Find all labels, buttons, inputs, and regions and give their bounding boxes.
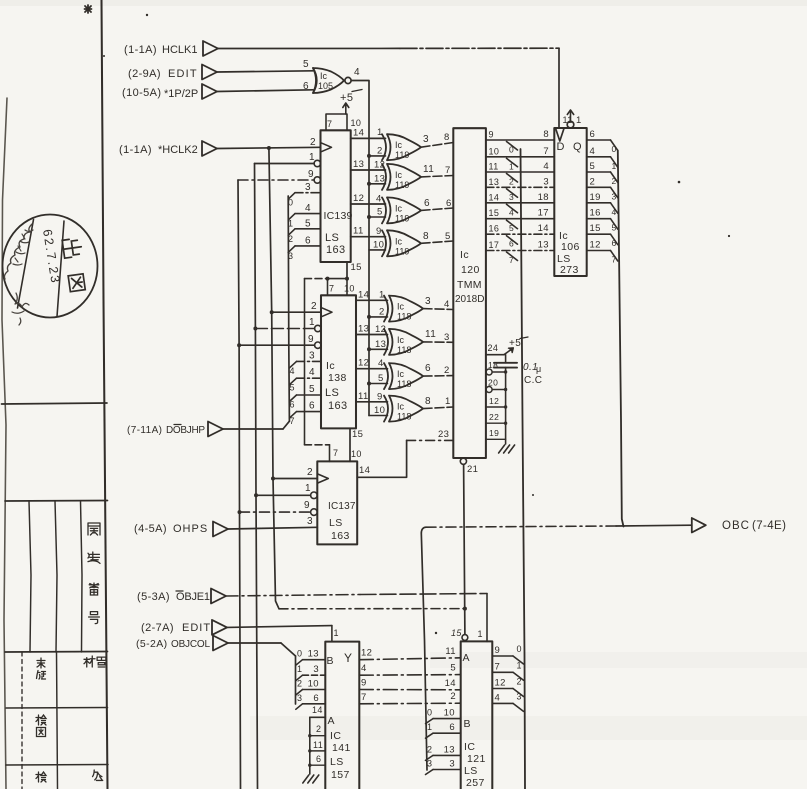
svg-text:3: 3: [297, 693, 302, 703]
svg-text:4: 4: [444, 299, 450, 310]
IC139 pin1 bubble: [314, 160, 320, 166]
svg-text:15: 15: [351, 262, 362, 273]
xor IC119 d: [382, 230, 386, 256]
svg-text:10: 10: [444, 708, 455, 719]
IC138 pin15 RCO to IC137 pin10: [349, 428, 351, 461]
IC139 pin2 clock wedge: [321, 143, 332, 152]
svg-text:1: 1: [305, 483, 311, 494]
svg-text:7: 7: [329, 284, 334, 294]
svg-text:1: 1: [297, 664, 302, 674]
svg-text:Ic: Ic: [395, 170, 403, 180]
wire IC105 pin4 flip line (vertical feed to XOR gates): [351, 81, 369, 416]
ground IC141 A bus: [303, 775, 309, 783]
svg-text:106: 106: [561, 241, 580, 253]
svg-text:12: 12: [489, 396, 499, 406]
svg-text:17: 17: [489, 240, 500, 250]
wire 1P/2P to IC105 pin6: [217, 90, 313, 92]
wire EDIT to IC105 pin5: [217, 71, 313, 72]
svg-text:B: B: [327, 655, 334, 667]
table kanji 未認: [37, 658, 45, 668]
svg-text:120: 120: [461, 264, 480, 276]
IC141 B input bus entries: [295, 656, 297, 704]
IC121 pin15 bubble: [462, 635, 468, 641]
input line DOBJHP: [208, 422, 223, 437]
IC137 pin2 clock wedge: [273, 478, 317, 480]
input buffer OBJE1: [211, 589, 226, 604]
counter IC137 LS163 body: [317, 461, 357, 544]
junction pin1 chain at IC137: [254, 493, 258, 497]
wire OBC riser / IC121 B bus: [421, 533, 427, 770]
svg-text:118: 118: [397, 312, 411, 322]
svg-text:1: 1: [445, 396, 451, 407]
svg-text:13: 13: [538, 240, 549, 251]
svg-text:9: 9: [377, 391, 383, 402]
svg-text:163: 163: [331, 530, 350, 542]
svg-text:6: 6: [290, 400, 295, 410]
svg-text:(1-1A): (1-1A): [124, 44, 157, 56]
svg-text:0: 0: [297, 649, 302, 659]
svg-text:118: 118: [397, 412, 411, 422]
or-gate IC105 pins 5,6 -> 4: [313, 68, 317, 93]
svg-text:0: 0: [427, 708, 432, 718]
scan specks: [146, 14, 148, 16]
svg-text:163: 163: [328, 400, 348, 412]
svg-text:(5-3A): (5-3A): [137, 591, 170, 603]
svg-text:10: 10: [373, 239, 384, 250]
svg-text:11: 11: [445, 646, 456, 657]
svg-text:14: 14: [312, 705, 323, 715]
svg-text:5: 5: [305, 218, 311, 229]
wire ENT column (IC139 pin9 chain): [238, 180, 241, 789]
svg-text:11: 11: [313, 740, 323, 750]
svg-text:7: 7: [290, 416, 295, 426]
svg-text:9: 9: [489, 130, 494, 140]
svg-text:16: 16: [590, 208, 601, 219]
counter IC138 LS163 body: [321, 295, 356, 428]
svg-text:4: 4: [376, 193, 382, 204]
svg-text:1: 1: [309, 152, 315, 163]
IC138 outputs 14,13,12,11 to IC118 XORs: [356, 299, 388, 301]
svg-text:12: 12: [375, 324, 386, 335]
svg-text:2: 2: [307, 467, 313, 478]
data bus vertical (RAM I/O bus): [521, 149, 526, 789]
svg-text:5: 5: [377, 207, 383, 218]
svg-text:4: 4: [590, 146, 596, 157]
bus data entries D0-D3 into IC139 pins 3,4,5,6: [288, 193, 295, 200]
svg-text:HCLK1: HCLK1: [162, 44, 197, 56]
svg-text:5: 5: [445, 231, 451, 242]
svg-text:2: 2: [310, 137, 316, 148]
IC139 pin9 bubble: [314, 177, 320, 183]
IC137 pin9 bubble: [311, 509, 318, 516]
svg-text:9: 9: [361, 678, 367, 689]
svg-text:6: 6: [449, 722, 455, 733]
wire RCO tie to IC138 pins 7,10: [328, 278, 348, 280]
IC120 pin21 bubble chip-select: [460, 458, 466, 464]
svg-text:11: 11: [423, 164, 434, 175]
IC137 pin1 bubble: [311, 492, 318, 499]
table kanji 関連番号 (vertical column): [88, 523, 100, 535]
junction at IC121 pin15 line: [463, 607, 467, 611]
svg-text:6: 6: [446, 198, 452, 209]
svg-text:LS: LS: [325, 387, 339, 399]
svg-text:5: 5: [309, 384, 315, 395]
svg-text:A: A: [463, 652, 470, 664]
junction pin9 chain at IC138: [237, 343, 241, 347]
svg-text:10: 10: [308, 679, 319, 690]
svg-text:7: 7: [543, 146, 549, 157]
wire ENP column (IC139 pin1 chain): [255, 164, 258, 789]
svg-text:14: 14: [359, 465, 370, 476]
xor IC118 c: [384, 363, 388, 389]
svg-text:119: 119: [395, 150, 409, 160]
wire OBC horizontal: [421, 527, 426, 533]
IC139 pin15 RCO: [346, 262, 348, 279]
svg-text:OBJCOL: OBJCOL: [171, 639, 210, 650]
bus data entries D4-D7 into IC138 pins 3,4,5,6: [289, 361, 296, 368]
IC120 pin18 bubble: [486, 369, 492, 375]
svg-text:1: 1: [309, 317, 315, 328]
svg-text:Ic: Ic: [397, 335, 405, 345]
svg-text:157: 157: [331, 769, 350, 781]
table kanji 材質: [84, 656, 95, 667]
svg-text:(5-2A): (5-2A): [136, 638, 168, 650]
svg-text:1: 1: [576, 115, 582, 126]
IC120 pin19: [486, 438, 506, 440]
svg-text:6: 6: [509, 239, 514, 249]
junction clock column at IC138 pin2: [270, 310, 274, 314]
svg-text:B: B: [464, 718, 471, 730]
svg-text:118: 118: [397, 345, 411, 355]
svg-text:3: 3: [425, 296, 431, 307]
wire HCLK2 vertical column to IC138/IC137 clocks: [269, 148, 279, 609]
svg-text:273: 273: [560, 264, 579, 276]
input buffer HCLK1: [203, 41, 218, 56]
svg-text:15: 15: [489, 208, 500, 218]
capacitor 0.1u ceramic: [505, 355, 507, 363]
svg-text:10: 10: [351, 449, 362, 459]
svg-text:15: 15: [352, 429, 363, 440]
svg-text:4: 4: [612, 207, 617, 217]
ram IC120 TMM2018D body: [453, 128, 486, 458]
svg-text:2: 2: [509, 177, 514, 187]
svg-text:Ic: Ic: [326, 360, 335, 372]
svg-text:Ic: Ic: [395, 140, 403, 150]
svg-text:6: 6: [425, 363, 431, 374]
wire DOBJHP to bus entry: [223, 428, 283, 430]
svg-text:14: 14: [358, 289, 369, 300]
register IC106 LS273 body: [554, 128, 586, 276]
svg-text:23: 23: [438, 429, 449, 440]
counter IC139 LS163 body: [321, 130, 351, 262]
svg-text:24: 24: [488, 343, 499, 353]
svg-text:(1-1A): (1-1A): [119, 144, 152, 156]
svg-text:14: 14: [538, 223, 549, 234]
svg-text:9: 9: [376, 226, 382, 237]
svg-text:IC139: IC139: [324, 210, 353, 222]
IC106 Q outputs to right bus: [587, 139, 611, 141]
mux IC141 LS157 body: [325, 642, 359, 789]
page border line: [102, 0, 108, 789]
wire HCLK1 to IC106 pin11: [218, 47, 400, 49]
svg-text:9: 9: [308, 169, 314, 180]
svg-text:2: 2: [590, 176, 596, 187]
wire OBJCOL to IC141 B bus: [228, 642, 281, 644]
svg-text:13: 13: [444, 744, 455, 755]
svg-text:(4-5A): (4-5A): [134, 523, 167, 535]
svg-text:1: 1: [427, 722, 432, 732]
svg-text:6: 6: [303, 81, 309, 92]
svg-text:20: 20: [488, 378, 498, 388]
xor IC119 b: [382, 164, 386, 190]
svg-text:5: 5: [612, 223, 617, 233]
xor IC118 b: [384, 329, 388, 355]
svg-text:LS: LS: [464, 765, 478, 777]
svg-text:2: 2: [297, 679, 302, 689]
svg-text:2: 2: [444, 365, 450, 376]
svg-text:21: 21: [467, 464, 478, 475]
IC120 right I/O rows to data bus and IC106: [486, 139, 554, 141]
title block table: [2, 403, 108, 404]
svg-text:+5: +5: [509, 338, 521, 349]
svg-text:1: 1: [334, 628, 339, 638]
svg-text:18: 18: [488, 360, 498, 370]
output buffer OBC: [692, 518, 706, 533]
svg-text:2: 2: [612, 176, 617, 186]
junction HCLK2 column: [267, 146, 271, 150]
svg-text:13: 13: [358, 324, 369, 335]
input buffer *1P/2P: [202, 84, 217, 99]
IC119 outputs to IC120 pins 8,7,6,5: [421, 143, 453, 148]
svg-text:16: 16: [489, 224, 500, 234]
svg-text:119: 119: [395, 180, 409, 190]
input buffer EDIT (2-7A): [212, 620, 227, 635]
IC121 outputs to data bus: [492, 655, 513, 657]
svg-text:8: 8: [423, 231, 429, 242]
svg-text:163: 163: [326, 244, 346, 256]
table kanji bottom row 検 処: [36, 772, 46, 782]
svg-text:4: 4: [290, 366, 295, 376]
svg-text:2: 2: [379, 306, 385, 317]
svg-text:1: 1: [509, 161, 514, 171]
svg-text:19: 19: [590, 192, 601, 203]
IC120 pin22: [486, 422, 506, 424]
svg-text:119: 119: [395, 213, 409, 223]
svg-text:2: 2: [450, 691, 456, 702]
svg-text:6: 6: [612, 238, 617, 248]
svg-text:9: 9: [308, 334, 314, 345]
wire RCO chain to IC137 pin7: [305, 278, 328, 280]
svg-text:4: 4: [378, 358, 384, 369]
wire OBJE1 to IC121 pin1: [226, 595, 360, 597]
svg-text:OHPS: OHPS: [173, 523, 208, 535]
svg-text:LS: LS: [330, 756, 344, 768]
table column lines: [29, 501, 31, 652]
svg-text:14: 14: [489, 192, 500, 202]
svg-text:12: 12: [361, 648, 372, 659]
svg-text:4: 4: [361, 663, 367, 674]
ground under IC120 bypass pins: [499, 445, 505, 453]
svg-text:4: 4: [309, 367, 315, 378]
svg-text:EDIT: EDIT: [168, 68, 198, 80]
input buffer EDIT (2-9A): [202, 65, 217, 80]
svg-text:IC: IC: [464, 741, 475, 753]
svg-text:118: 118: [397, 379, 411, 389]
svg-text:TMM: TMM: [457, 279, 482, 291]
svg-text:257: 257: [466, 777, 485, 789]
svg-text:13: 13: [308, 649, 319, 660]
svg-text:Ic: Ic: [397, 302, 405, 312]
svg-text:8: 8: [444, 132, 450, 143]
svg-text:DOBJHP: DOBJHP: [166, 425, 205, 436]
svg-text:4: 4: [509, 207, 514, 217]
svg-text:11: 11: [489, 162, 499, 172]
svg-text:1: 1: [379, 290, 385, 301]
svg-text:0: 0: [517, 644, 522, 654]
xor IC119 c: [382, 197, 386, 223]
IC120 pin24 +5: [486, 354, 504, 356]
svg-text:LS: LS: [325, 232, 339, 244]
stamp signature scribble: [4, 224, 32, 279]
svg-text:(2-7A): (2-7A): [141, 622, 174, 634]
svg-text:(10-5A): (10-5A): [122, 87, 161, 99]
xor IC119 a: [382, 134, 386, 160]
svg-text:4: 4: [305, 203, 311, 214]
svg-text:Ic: Ic: [397, 402, 405, 412]
svg-text:2: 2: [517, 677, 522, 687]
IC141 A inputs tied to ground: [309, 717, 311, 774]
svg-text:1: 1: [478, 629, 483, 639]
svg-text:18: 18: [538, 192, 549, 203]
svg-text:D: D: [557, 141, 565, 153]
IC138 pin1 bubble: [315, 325, 321, 331]
IC120 pin20 bubble: [486, 387, 492, 393]
svg-text:7: 7: [509, 255, 514, 265]
svg-text:10: 10: [489, 146, 500, 156]
svg-text:12: 12: [358, 358, 369, 369]
svg-text:13: 13: [489, 177, 500, 187]
svg-text:9: 9: [304, 500, 310, 511]
svg-text:6: 6: [424, 198, 430, 209]
svg-text:6: 6: [309, 401, 315, 412]
flip-line stubs to IC119 lower inputs: [369, 155, 386, 157]
input buffer *HCLK2: [202, 141, 217, 156]
svg-text:OBJE1: OBJE1: [176, 591, 210, 603]
svg-text:10: 10: [374, 405, 385, 416]
svg-text:9: 9: [495, 645, 501, 656]
input buffer OBJCOL: [213, 636, 228, 651]
IC141 Y outputs to IC121 A inputs: [359, 658, 460, 660]
input buffer OHPS: [213, 522, 228, 537]
table kanji 検図: [36, 715, 46, 725]
svg-text:5: 5: [509, 223, 514, 233]
svg-text:Ic: Ic: [460, 249, 469, 261]
svg-text:*1P/2P: *1P/2P: [164, 88, 198, 100]
svg-text:105: 105: [318, 81, 333, 91]
wire HCLK2 to IC139 pin2: [217, 147, 321, 148]
svg-text:Q: Q: [573, 141, 582, 153]
svg-text:EDIT: EDIT: [182, 622, 211, 634]
svg-text:1: 1: [517, 660, 522, 670]
svg-text:7: 7: [612, 255, 617, 265]
svg-text:17: 17: [538, 208, 549, 219]
svg-text:+5: +5: [340, 92, 353, 104]
svg-text:8: 8: [543, 129, 549, 140]
IC138 pin2 clock wedge: [272, 311, 321, 313]
svg-text:3: 3: [427, 759, 432, 769]
IC137 pin14 to IC120 pin23: [357, 440, 406, 477]
wire OHPS to IC137 pin3: [228, 527, 317, 529]
svg-text:Y: Y: [344, 651, 352, 665]
svg-text:3: 3: [449, 759, 455, 770]
svg-text:2: 2: [316, 724, 321, 734]
svg-text:12: 12: [495, 678, 506, 689]
mux IC121 LS257 body: [461, 641, 493, 789]
svg-text:6: 6: [316, 754, 321, 764]
svg-text:5: 5: [378, 373, 384, 384]
svg-text:8: 8: [425, 396, 431, 407]
svg-text:3: 3: [305, 182, 311, 193]
svg-text:1: 1: [612, 161, 617, 171]
svg-text:4: 4: [495, 692, 501, 703]
svg-text:4: 4: [354, 67, 360, 78]
svg-text:3: 3: [543, 176, 549, 187]
svg-text:13: 13: [375, 339, 386, 350]
svg-text:11: 11: [358, 391, 369, 402]
IC139 pins 7,10 tie to +5: [326, 114, 347, 130]
junction pin1 chain at IC138: [253, 327, 257, 331]
svg-text:7: 7: [333, 448, 338, 458]
svg-text:7: 7: [361, 692, 367, 703]
wire DOBJHP entry corner to bus: [283, 421, 289, 429]
svg-text:2: 2: [311, 301, 317, 312]
svg-text:2: 2: [427, 744, 432, 754]
junction clock column at IC137 pin2: [271, 477, 275, 481]
svg-text:12: 12: [590, 240, 601, 251]
svg-text:15: 15: [451, 628, 462, 638]
svg-text:(7-4E): (7-4E): [752, 520, 786, 532]
svg-text:5: 5: [290, 383, 295, 393]
output bus vertical to OBC: [618, 151, 624, 527]
svg-text:119: 119: [395, 246, 409, 256]
+5 pull-up arrow: [345, 104, 347, 114]
IC121 pin1 riser: [486, 594, 488, 642]
IC106 pin1 reset bubble to +5 arrow: [567, 121, 574, 128]
wire IC120 pin21 to IC121 pin15: [464, 464, 465, 634]
bus vertical (object data bus): [288, 196, 289, 421]
svg-text:11: 11: [353, 226, 364, 237]
svg-text:(2-9A): (2-9A): [128, 68, 161, 80]
svg-text:3: 3: [444, 332, 450, 343]
svg-text:14: 14: [445, 678, 456, 689]
xor IC118 d: [384, 396, 388, 422]
stamp kanji 出図: [62, 238, 87, 292]
svg-text:13: 13: [353, 159, 364, 170]
svg-text:Ic: Ic: [395, 203, 403, 213]
junction pin9 chain at IC137: [238, 510, 242, 514]
svg-text:15: 15: [590, 223, 601, 234]
svg-text:OBC: OBC: [722, 520, 750, 532]
svg-text:6: 6: [590, 129, 596, 140]
svg-text:7: 7: [495, 661, 501, 672]
svg-text:IC: IC: [330, 730, 341, 742]
svg-text:3: 3: [612, 191, 617, 201]
svg-text:13: 13: [374, 173, 385, 184]
svg-text:2018D: 2018D: [455, 294, 484, 305]
svg-text:0: 0: [612, 144, 617, 154]
svg-text:μ: μ: [536, 364, 542, 374]
svg-text:4: 4: [543, 161, 549, 172]
